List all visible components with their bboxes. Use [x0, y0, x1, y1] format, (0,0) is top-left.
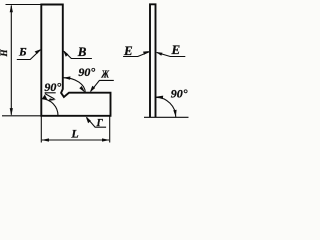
svg-text:L: L [70, 127, 78, 141]
svg-text:90°: 90° [78, 65, 95, 79]
svg-text:90°: 90° [44, 80, 61, 94]
svg-text:Н: Н [0, 49, 9, 58]
svg-text:В: В [77, 44, 87, 59]
svg-text:90°: 90° [171, 87, 188, 101]
svg-text:Е: Е [171, 42, 181, 57]
svg-text:Е: Е [123, 43, 133, 58]
svg-text:Ж: Ж [101, 70, 110, 81]
svg-text:Б: Б [18, 45, 27, 59]
svg-text:Г: Г [96, 118, 104, 129]
